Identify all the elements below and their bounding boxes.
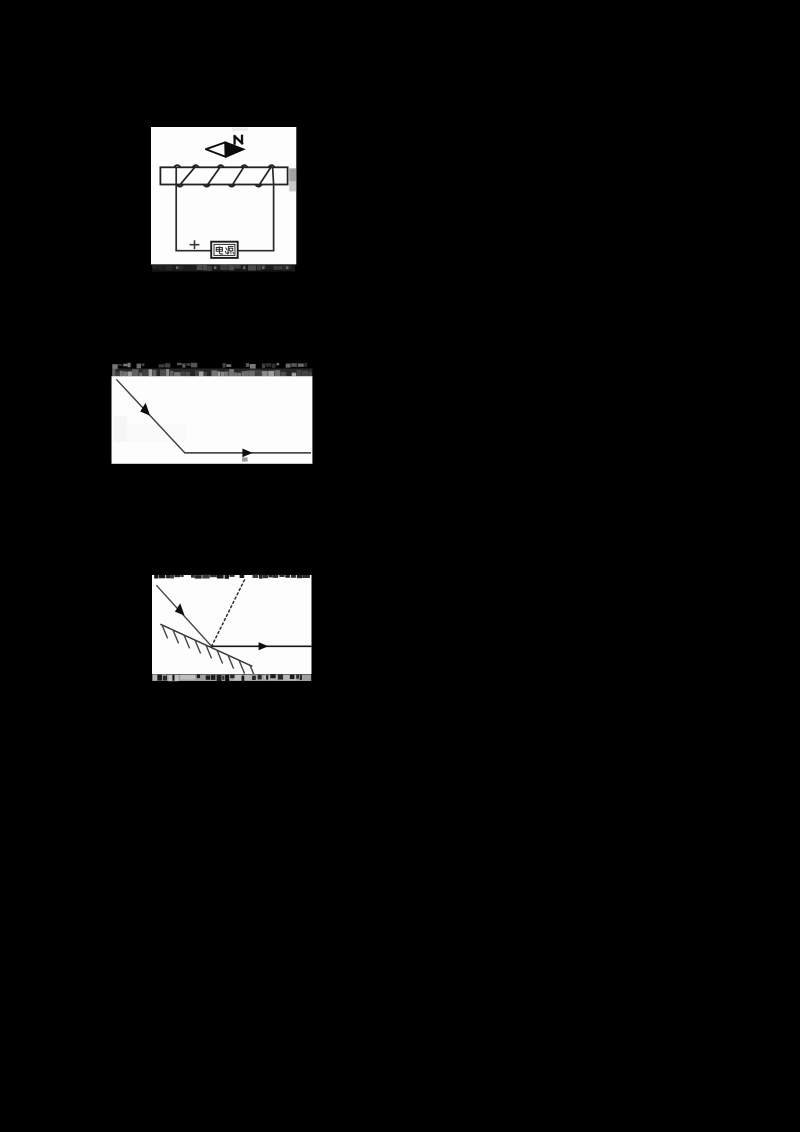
- solenoid core L1: [160, 167, 287, 184]
- cropped text line (above figure 2): [112, 363, 312, 376]
- figure panel 2 (refraction ray): [112, 376, 313, 464]
- scan smudge right of solenoid: [232, 128, 296, 192]
- battery label 电 glyph: [216, 246, 223, 254]
- battery box 电源: [211, 242, 238, 258]
- wire right vertical: [273, 167, 274, 251]
- wire bottom right: [238, 250, 275, 252]
- solenoid windings: [174, 165, 275, 187]
- incident ray: [156, 585, 211, 646]
- mirror surface: [160, 624, 252, 666]
- arrowhead on horizontal ray: [242, 449, 252, 458]
- label N: [235, 136, 242, 144]
- plus terminal +: [190, 240, 200, 249]
- reflected ray (horizontal): [212, 645, 312, 647]
- compass needle (left half outline, right half filled, pointing to N): [206, 142, 244, 157]
- incident ray (diagonal): [116, 379, 185, 453]
- cropped text line (top of figure 3): [154, 575, 310, 579]
- arrowhead on incident ray: [175, 603, 185, 615]
- arrowhead on incident ray: [140, 403, 150, 416]
- battery label 源 glyph: [225, 247, 234, 255]
- normal (dashed): [212, 578, 246, 646]
- figure panel 1 (solenoid circuit): [151, 127, 296, 264]
- wire bottom left: [175, 250, 211, 252]
- mirror hatching: [162, 625, 256, 679]
- smudge below arrow: [242, 457, 248, 461]
- arrowhead on reflected ray: [259, 642, 269, 650]
- cropped text line (below figure 3): [152, 674, 311, 682]
- faint scan smudges: [114, 416, 187, 442]
- refracted ray (horizontal): [185, 452, 312, 454]
- figure panel 3 (reflection at mirror): [152, 575, 312, 674]
- cropped text line (below figure 1): [152, 264, 295, 271]
- wire left vertical: [175, 167, 177, 251]
